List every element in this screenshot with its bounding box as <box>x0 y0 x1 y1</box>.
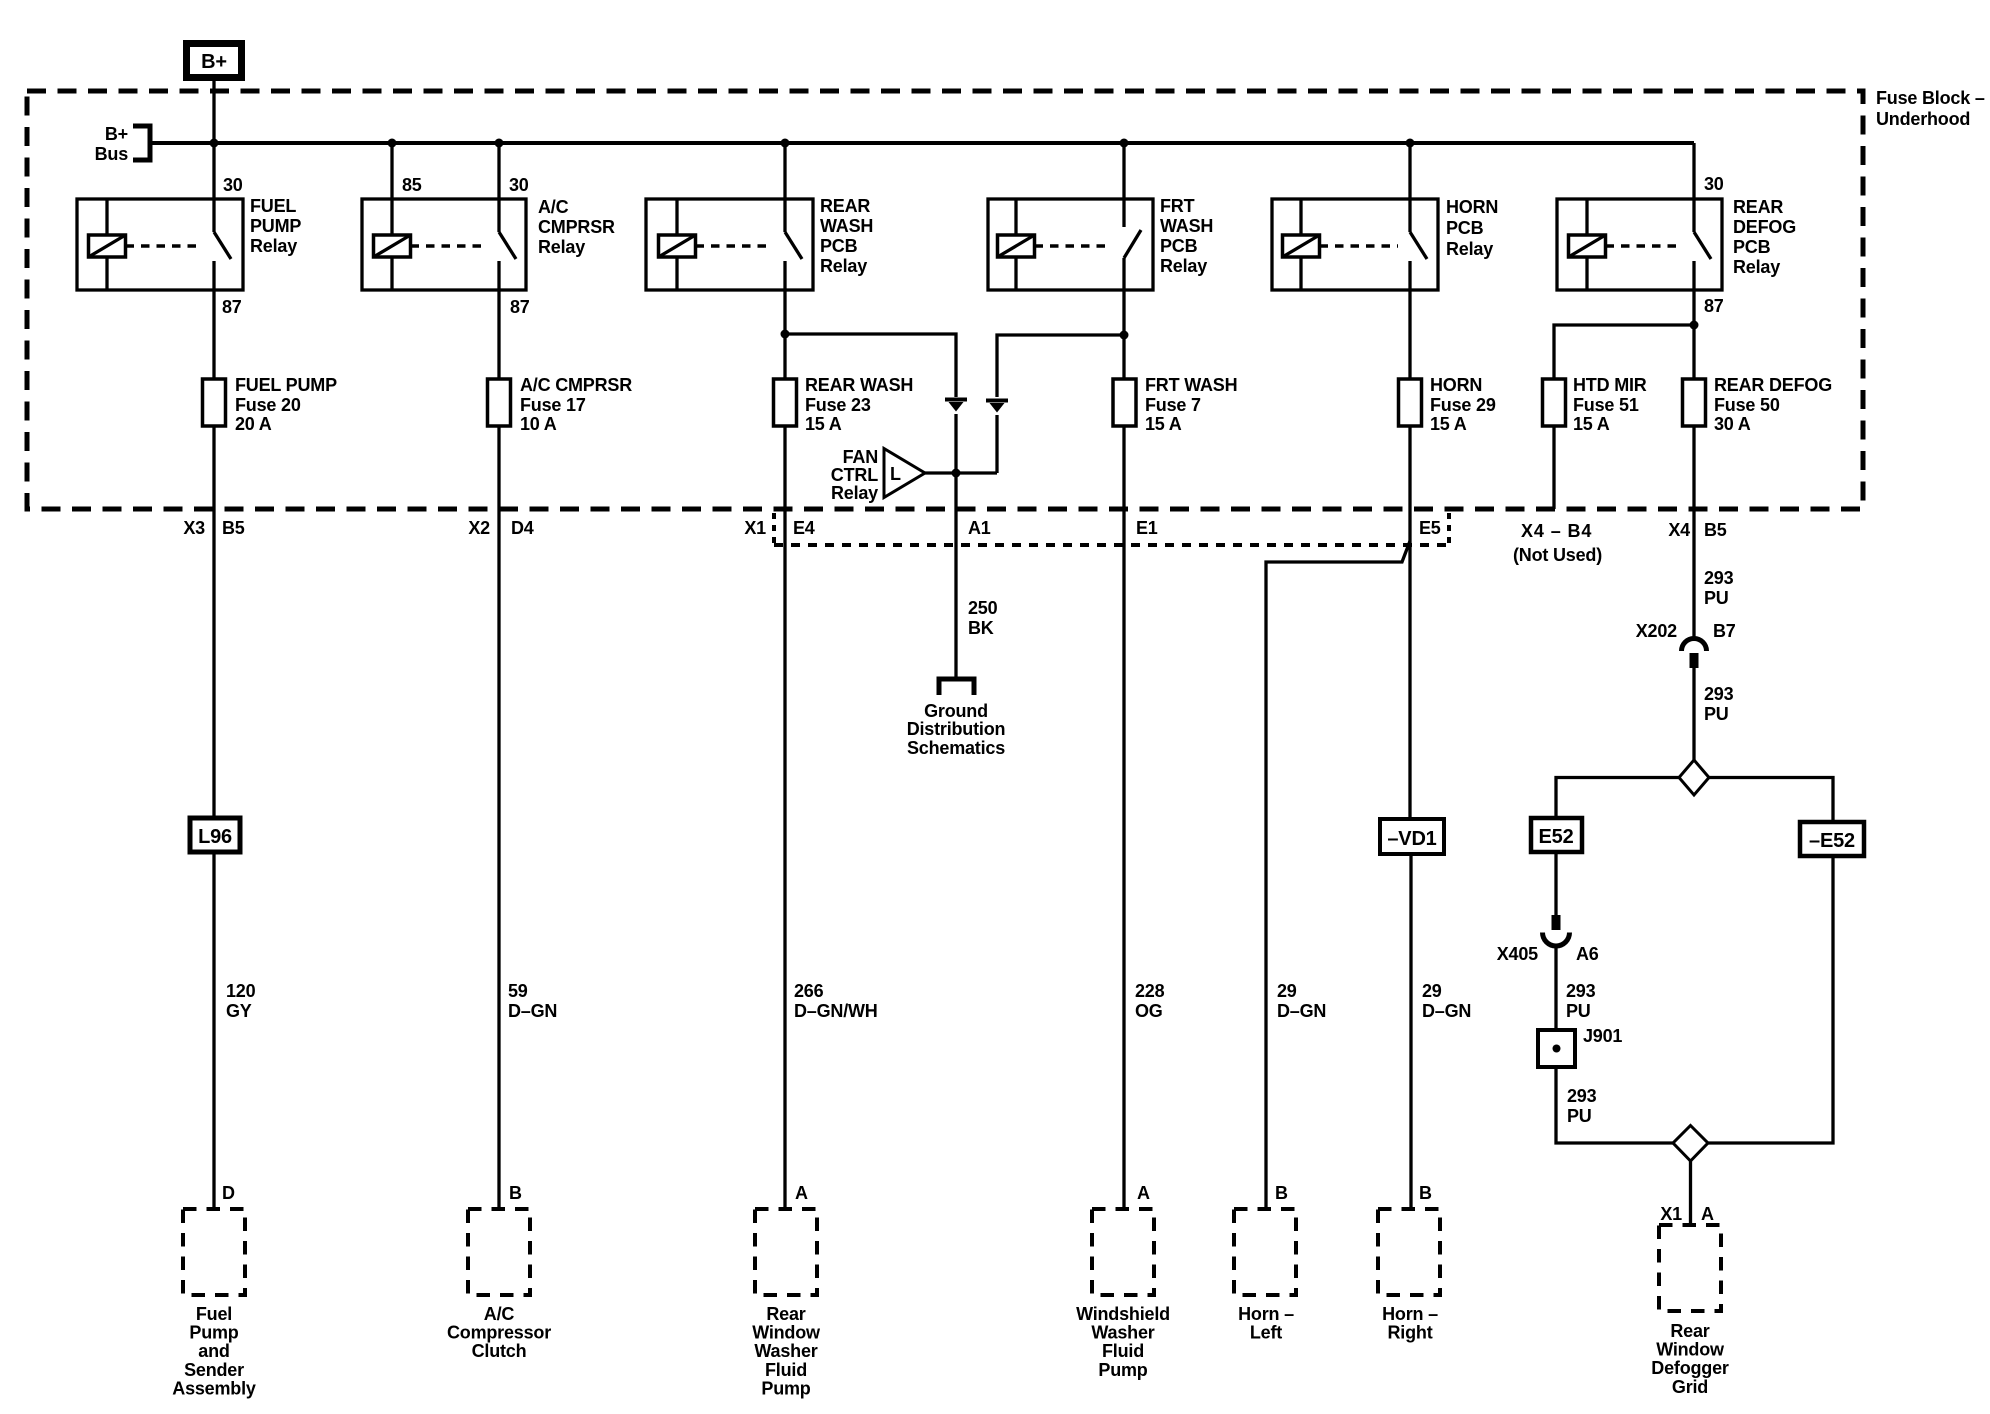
svg-text:15 A: 15 A <box>1430 414 1467 434</box>
svg-text:J901: J901 <box>1583 1026 1622 1046</box>
wire bus to horn relay pin 30 <box>1408 143 1411 199</box>
wire label 29 D-GN right <box>1422 981 1471 1021</box>
fuse HORN Fuse 29 15A <box>1399 375 1496 434</box>
relay A/C CMPRSR Relay K2 <box>362 197 615 290</box>
fuse HTD MIR Fuse 51 15A <box>1543 375 1647 434</box>
svg-text:Defogger: Defogger <box>1651 1358 1729 1378</box>
svg-text:Fluid: Fluid <box>765 1360 807 1380</box>
svg-text:L96: L96 <box>198 826 232 848</box>
junction rear defog 87 / htd mir branch <box>1690 321 1699 330</box>
svg-text:WASH: WASH <box>1160 216 1213 236</box>
wire A1 to ground (250 BK) <box>954 473 957 678</box>
svg-text:85: 85 <box>402 175 422 195</box>
pin E5 connector X1 <box>1419 518 1441 538</box>
diode CR2 <box>986 401 1008 413</box>
svg-text:PU: PU <box>1704 588 1729 608</box>
svg-text:PU: PU <box>1704 704 1729 724</box>
wire diode CR1 to fan ctrl node <box>954 414 957 473</box>
svg-text:GY: GY <box>226 1001 252 1021</box>
svg-text:Relay: Relay <box>1160 256 1207 276</box>
svg-text:293: 293 <box>1704 568 1734 588</box>
svg-text:250: 250 <box>968 598 998 618</box>
svg-text:E4: E4 <box>793 518 815 538</box>
svg-text:A/C: A/C <box>538 197 569 217</box>
wire diamond to rear defogger grid <box>1689 1161 1692 1225</box>
component Fuel Pump and Sender Assembly <box>172 1209 256 1398</box>
svg-text:HTD MIR: HTD MIR <box>1573 375 1647 395</box>
wire rear wash relay 87 to fuse 23 <box>783 290 786 379</box>
svg-text:Ground: Ground <box>924 701 988 721</box>
svg-text:30 A: 30 A <box>1714 414 1751 434</box>
wire A/C relay 87 to fuse 17 <box>497 290 500 379</box>
svg-text:PUMP: PUMP <box>250 216 301 236</box>
svg-text:PU: PU <box>1567 1106 1592 1126</box>
connector X405 pin A6 <box>1497 915 1599 964</box>
svg-text:PCB: PCB <box>1446 218 1484 238</box>
svg-text:Compressor: Compressor <box>447 1323 551 1343</box>
svg-text:B7: B7 <box>1713 621 1736 641</box>
svg-text:Fuel: Fuel <box>196 1304 232 1324</box>
svg-text:PCB: PCB <box>820 236 858 256</box>
fuse REAR DEFOG Fuse 50 30A <box>1683 375 1833 434</box>
wire diode CR2 to fan ctrl node <box>995 415 998 473</box>
svg-text:Pump: Pump <box>1098 1360 1147 1380</box>
connector X4 pin B5 <box>1668 520 1726 540</box>
svg-text:L: L <box>890 464 901 484</box>
component Horn Left <box>1234 1209 1296 1343</box>
wire branch to diode CR2 <box>997 335 1124 397</box>
wire bus to A/C relay pin 30 <box>497 143 500 199</box>
svg-text:Distribution: Distribution <box>907 719 1006 739</box>
svg-text:D–GN/WH: D–GN/WH <box>794 1001 878 1021</box>
svg-text:(Not Used): (Not Used) <box>1513 545 1602 565</box>
connector X4 pin B4 not used <box>1513 521 1602 565</box>
relay REAR DEFOG PCB Relay K6 <box>1557 197 1796 290</box>
op-amp style driver FAN CTRL Relay <box>831 447 925 503</box>
svg-text:B+: B+ <box>201 51 227 73</box>
svg-text:Washer: Washer <box>1091 1323 1154 1343</box>
ground symbol G100 <box>907 679 1006 758</box>
wire branch to diode CR1 <box>785 334 956 397</box>
svg-text:Fuse 20: Fuse 20 <box>235 395 301 415</box>
svg-text:Window: Window <box>1656 1340 1725 1360</box>
svg-text:Relay: Relay <box>820 256 867 276</box>
svg-text:X1: X1 <box>1660 1204 1682 1224</box>
svg-text:B+: B+ <box>105 124 128 144</box>
svg-text:30: 30 <box>223 175 243 195</box>
wire label 293 PU fourth <box>1567 1086 1597 1126</box>
svg-text:A6: A6 <box>1576 944 1599 964</box>
fuse FRT WASH Fuse 7 15A <box>1113 375 1237 434</box>
svg-text:29: 29 <box>1277 981 1297 1001</box>
svg-text:Relay: Relay <box>250 236 297 256</box>
svg-text:Relay: Relay <box>538 237 585 257</box>
connector -VD1 <box>1380 819 1444 854</box>
wire B+ bus line <box>152 141 1694 145</box>
wire bus to A/C relay pin 85 <box>390 143 393 199</box>
junction bus/rear wash relay <box>781 139 790 148</box>
wire fan ctrl relay output <box>925 471 997 474</box>
svg-text:Windshield: Windshield <box>1076 1304 1170 1324</box>
svg-text:Horn –: Horn – <box>1382 1304 1438 1324</box>
svg-text:Washer: Washer <box>754 1341 817 1361</box>
splice diamond upper <box>1679 760 1709 795</box>
svg-text:X405: X405 <box>1497 944 1538 964</box>
wire horn relay 87 to fuse 29 <box>1408 290 1411 379</box>
svg-text:Fuse 7: Fuse 7 <box>1145 395 1201 415</box>
connector X3 pin B5 <box>183 518 244 538</box>
svg-text:D–GN: D–GN <box>1422 1001 1471 1021</box>
svg-text:Pump: Pump <box>189 1323 238 1343</box>
svg-text:X4 – B4: X4 – B4 <box>1521 521 1592 541</box>
wire fuse 50 to X202 (293 PU) <box>1692 426 1695 639</box>
junction fan ctrl output / ground wire <box>952 469 961 478</box>
svg-text:X4: X4 <box>1668 520 1690 540</box>
svg-text:–E52: –E52 <box>1809 830 1855 852</box>
wire fuse 29 through E5 to horn right (29 D-GN) <box>1408 426 1411 819</box>
svg-text:FAN: FAN <box>843 447 878 467</box>
node B+ Bus <box>95 124 150 164</box>
svg-text:293: 293 <box>1704 684 1734 704</box>
svg-text:FUEL PUMP: FUEL PUMP <box>235 375 337 395</box>
svg-text:15 A: 15 A <box>805 414 842 434</box>
svg-text:HORN: HORN <box>1430 375 1482 395</box>
wire branch to HTD MIR fuse 51 <box>1554 325 1694 379</box>
fuse A/C CMPRSR Fuse 17 10A <box>488 375 633 434</box>
wire B+ to bus <box>212 81 215 199</box>
svg-text:B: B <box>1275 1183 1288 1203</box>
svg-text:D4: D4 <box>511 518 534 538</box>
svg-text:PCB: PCB <box>1160 236 1198 256</box>
svg-text:B5: B5 <box>1704 520 1727 540</box>
svg-text:A/C CMPRSR: A/C CMPRSR <box>520 375 632 395</box>
svg-text:Rear: Rear <box>1670 1321 1709 1341</box>
junction bus/ac relay coil <box>388 139 397 148</box>
wire label 29 D-GN left <box>1277 981 1326 1021</box>
svg-text:E1: E1 <box>1136 518 1158 538</box>
connector X1 dotted boundary <box>774 513 1449 549</box>
connector E52 <box>1531 818 1582 852</box>
splice diamond lower <box>1673 1126 1708 1162</box>
svg-text:Grid: Grid <box>1672 1377 1708 1397</box>
svg-text:WASH: WASH <box>820 216 873 236</box>
svg-text:30: 30 <box>1704 174 1724 194</box>
pin E4 connector X1 <box>793 518 815 538</box>
svg-text:FRT: FRT <box>1160 196 1195 216</box>
fuse FUEL PUMP Fuse 20 20A <box>203 375 338 434</box>
svg-text:REAR DEFOG: REAR DEFOG <box>1714 375 1832 395</box>
fuse block underhood dashed border <box>27 91 1863 509</box>
svg-text:FUEL: FUEL <box>250 196 296 216</box>
connector X1 label <box>744 518 766 538</box>
wire fuse 17 to A/C compressor clutch (59 D-GN) <box>497 426 500 1209</box>
wire E52 to X405 <box>1554 852 1557 916</box>
svg-text:REAR: REAR <box>820 196 870 216</box>
wire bus to rear defog relay pin 30 <box>1692 143 1695 199</box>
svg-text:Window: Window <box>752 1323 821 1343</box>
junction bus/ac relay 30 <box>495 139 504 148</box>
svg-text:Fuse 50: Fuse 50 <box>1714 395 1780 415</box>
wire label 293 PU upper <box>1704 568 1734 608</box>
svg-text:and: and <box>198 1341 229 1361</box>
svg-text:87: 87 <box>222 297 242 317</box>
svg-text:A: A <box>795 1183 808 1203</box>
svg-text:15 A: 15 A <box>1573 414 1610 434</box>
svg-text:Left: Left <box>1250 1323 1282 1343</box>
wire fuse 23 to rear window washer pump (266 D-GN/WH) <box>783 426 786 1209</box>
wire X405 to J901 (293 PU) <box>1554 946 1557 1030</box>
svg-text:10 A: 10 A <box>520 414 557 434</box>
svg-text:Fluid: Fluid <box>1102 1341 1144 1361</box>
wire label 120 GY <box>226 981 256 1021</box>
svg-text:Fuse 23: Fuse 23 <box>805 395 871 415</box>
wire label 293 PU third <box>1566 981 1596 1021</box>
B+ battery terminal <box>187 44 242 78</box>
relay FUEL PUMP Relay K1 <box>77 196 301 290</box>
svg-text:HORN: HORN <box>1446 197 1498 217</box>
svg-text:REAR: REAR <box>1733 197 1783 217</box>
wire rear defog relay 87 to fuse 50 <box>1692 290 1695 379</box>
wire fuse 7 to windshield washer pump (228 OG) <box>1122 426 1125 1209</box>
connector X2 pin D4 <box>468 518 533 538</box>
wire label 59 D-GN <box>508 981 557 1021</box>
svg-text:DEFOG: DEFOG <box>1733 217 1796 237</box>
wire frt wash relay 87 to fuse 7 <box>1122 290 1125 379</box>
svg-text:D: D <box>222 1183 235 1203</box>
svg-text:Relay: Relay <box>831 483 878 503</box>
connector X1 pin A defogger <box>1660 1204 1714 1224</box>
wire diamond to -E52 <box>1709 778 1833 823</box>
connector -E52 <box>1800 822 1864 856</box>
svg-text:Right: Right <box>1388 1323 1433 1343</box>
svg-text:CTRL: CTRL <box>831 465 878 485</box>
wire fuel pump relay 87 to fuse 20 <box>212 290 215 379</box>
wire branch E5 to horn left (29 D-GN) <box>1266 541 1410 1209</box>
wire label 228 OG <box>1135 981 1165 1021</box>
svg-text:X2: X2 <box>468 518 490 538</box>
svg-text:228: 228 <box>1135 981 1165 1001</box>
svg-text:Clutch: Clutch <box>472 1341 527 1361</box>
junction bus/frt wash relay <box>1120 139 1129 148</box>
svg-text:Fuse 29: Fuse 29 <box>1430 395 1496 415</box>
wire fuse 20 to L96 (circuit 120 GY) <box>212 426 215 818</box>
relay REAR WASH PCB Relay K3 <box>646 196 873 290</box>
wire diamond to E52 <box>1556 778 1679 819</box>
svg-text:X1: X1 <box>744 518 766 538</box>
relay FRT WASH PCB Relay K4 <box>988 196 1213 290</box>
wire bus to rear wash relay pin 30 <box>783 143 786 199</box>
svg-text:Fuse 17: Fuse 17 <box>520 395 586 415</box>
svg-text:Horn –: Horn – <box>1238 1304 1294 1324</box>
svg-text:PU: PU <box>1566 1001 1591 1021</box>
splice J901 <box>1538 1026 1622 1067</box>
svg-text:Bus: Bus <box>95 144 129 164</box>
svg-text:Relay: Relay <box>1446 239 1493 259</box>
svg-text:Rear: Rear <box>766 1304 805 1324</box>
svg-text:Fuse 51: Fuse 51 <box>1573 395 1639 415</box>
diode CR1 <box>945 400 967 412</box>
wire HTD MIR fuse 51 to X4-B4 (not used) <box>1552 426 1555 509</box>
svg-text:PCB: PCB <box>1733 237 1771 257</box>
fuse REAR WASH Fuse 23 15A <box>774 375 914 434</box>
svg-text:30: 30 <box>509 175 529 195</box>
svg-text:B: B <box>509 1183 522 1203</box>
wire J901 to splice diamond lower (293 PU) <box>1556 1067 1673 1143</box>
connector L96 <box>190 818 240 852</box>
svg-text:OG: OG <box>1135 1001 1163 1021</box>
component Horn Right <box>1378 1209 1440 1343</box>
svg-text:B5: B5 <box>222 518 245 538</box>
svg-text:D–GN: D–GN <box>1277 1001 1326 1021</box>
svg-text:–VD1: –VD1 <box>1387 828 1436 850</box>
component Windshield Washer Fluid Pump <box>1076 1209 1170 1380</box>
junction bus/horn relay <box>1406 139 1415 148</box>
svg-text:15 A: 15 A <box>1145 414 1182 434</box>
component A/C Compressor Clutch <box>447 1209 551 1361</box>
svg-text:29: 29 <box>1422 981 1442 1001</box>
wire label 293 PU second <box>1704 684 1734 724</box>
svg-text:Underhood: Underhood <box>1876 109 1970 129</box>
svg-text:E5: E5 <box>1419 518 1441 538</box>
svg-text:Sender: Sender <box>184 1360 244 1380</box>
svg-text:B: B <box>1419 1183 1432 1203</box>
wire -E52 to splice diamond lower <box>1708 856 1833 1143</box>
wire label 266 D-GN/WH <box>794 981 878 1021</box>
svg-text:X3: X3 <box>183 518 205 538</box>
svg-text:A: A <box>1137 1183 1150 1203</box>
relay HORN PCB Relay K5 <box>1272 197 1498 290</box>
junction frt wash branch <box>1120 331 1129 340</box>
svg-text:Relay: Relay <box>1733 257 1780 277</box>
svg-text:A1: A1 <box>968 518 991 538</box>
svg-text:59: 59 <box>508 981 528 1001</box>
junction rear wash branch <box>781 330 790 339</box>
pin E1 connector X1 <box>1136 518 1158 538</box>
svg-text:293: 293 <box>1566 981 1596 1001</box>
svg-text:293: 293 <box>1567 1086 1597 1106</box>
component Rear Window Defogger Grid <box>1651 1225 1729 1397</box>
wire bus to frt wash relay pin 30 <box>1122 143 1125 199</box>
junction bus/fuel pump relay <box>210 139 219 148</box>
svg-text:Pump: Pump <box>761 1378 810 1398</box>
svg-text:A/C: A/C <box>484 1304 515 1324</box>
svg-text:E52: E52 <box>1539 826 1574 848</box>
svg-text:87: 87 <box>510 297 530 317</box>
svg-text:D–GN: D–GN <box>508 1001 557 1021</box>
svg-text:Schematics: Schematics <box>907 738 1005 758</box>
svg-text:BK: BK <box>968 618 994 638</box>
svg-text:X202: X202 <box>1636 621 1677 641</box>
label Fuse Block - Underhood <box>1876 88 1985 129</box>
connector X202 pin B7 <box>1636 621 1736 668</box>
svg-text:20 A: 20 A <box>235 414 272 434</box>
svg-text:A: A <box>1701 1204 1714 1224</box>
svg-text:Assembly: Assembly <box>172 1378 256 1398</box>
wire -VD1 to horn right <box>1409 854 1412 1209</box>
svg-text:FRT WASH: FRT WASH <box>1145 375 1237 395</box>
svg-text:87: 87 <box>1704 296 1724 316</box>
wire label 250 BK <box>968 598 998 638</box>
svg-text:Fuse Block –: Fuse Block – <box>1876 88 1985 108</box>
wire L96 to fuel pump (120 GY) <box>212 852 215 1209</box>
svg-text:120: 120 <box>226 981 256 1001</box>
wire X202 to splice diamond (293 PU) <box>1692 668 1695 760</box>
svg-text:CMPRSR: CMPRSR <box>538 217 615 237</box>
svg-text:REAR WASH: REAR WASH <box>805 375 913 395</box>
svg-text:266: 266 <box>794 981 824 1001</box>
pin A1 connector X1 <box>968 518 991 538</box>
component Rear Window Washer Fluid Pump <box>752 1209 821 1398</box>
